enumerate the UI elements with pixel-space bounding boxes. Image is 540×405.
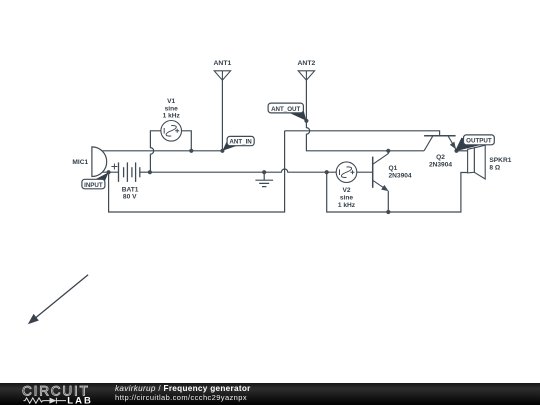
transistor Q2 [424,136,456,151]
svg-text:ANT2: ANT2 [298,60,316,67]
svg-text:Q2: Q2 [436,154,445,161]
speaker SPKR1 [468,145,486,179]
wire ANT2 down lead [305,80,307,121]
ground [255,172,273,186]
flag INPUT [82,172,109,188]
svg-text:80 V: 80 V [123,194,137,201]
wire left bottom rail loop [109,131,285,212]
wire battery right lead [140,171,150,173]
svg-text:LAB: LAB [67,395,93,405]
voltage source V2 [336,162,357,183]
svg-text:sine: sine [165,105,179,112]
flag ANT_OUT [268,103,306,121]
wire right bottom rail from speaker to V2 riser [327,172,468,212]
svg-text:BAT1: BAT1 [122,186,139,193]
svg-text:1 kHz: 1 kHz [338,202,356,209]
antenna ANT1 [214,71,230,80]
wire mic bottom to battery left [102,171,118,173]
svg-text:8 Ω: 8 Ω [489,164,500,171]
battery BAT1 plates [119,162,140,182]
wire mic top to ANT_IN node [102,150,223,152]
svg-text:SPKR1: SPKR1 [489,157,511,164]
transistor Q1 [373,151,389,190]
svg-text:V2: V2 [342,187,350,194]
wire ANT1 down lead [221,80,223,151]
wire Q1 emitter down to rail [387,191,389,212]
wire V2 right lead to Q1 base [357,171,373,173]
wire ANT2 node down with hop then second bus to Q2 collector [306,121,424,151]
svg-text:V1: V1 [167,98,175,105]
svg-text:http://circuitlab.com/ccchc29y: http://circuitlab.com/ccchc29yaznpx [115,393,247,402]
svg-text:MIC1: MIC1 [72,159,88,166]
svg-text:ANT_IN: ANT_IN [229,139,252,146]
wire V1 right lead down to node [182,131,192,151]
footer bar [0,383,540,405]
logo resistor zigzag and diode [24,398,67,404]
svg-text:ANT_OUT: ANT_OUT [271,106,300,113]
svg-text:2N3904: 2N3904 [429,161,452,168]
svg-text:ANT1: ANT1 [214,60,232,67]
voltage source V1 [161,121,182,142]
svg-text:OUTPUT: OUTPUT [466,138,492,145]
svg-text:INPUT: INPUT [84,182,103,189]
battery plus sign [111,164,117,170]
wire V1 left lead with hop over mic wire [150,131,161,172]
svg-text:Q1: Q1 [389,165,398,172]
junction node dots [107,119,459,214]
flag ANT_IN [222,136,254,150]
wire Q2 emitter node to speaker [457,150,468,152]
flag OUTPUT [455,135,494,152]
annotation arrow [34,275,89,320]
wire main row with hop over left riser [150,169,336,172]
svg-text:1 kHz: 1 kHz [163,113,181,120]
wire top bus to Q2 base [285,131,440,136]
microphone MIC1 [92,147,107,177]
antenna ANT2 [298,71,314,80]
transistor Q2 emitter arrow [450,142,456,150]
svg-text:kavirkurup / Frequency generat: kavirkurup / Frequency generator [115,384,251,393]
transistor Q1 emitter arrow [381,185,388,191]
svg-text:2N3904: 2N3904 [389,172,412,179]
svg-text:sine: sine [340,194,354,201]
